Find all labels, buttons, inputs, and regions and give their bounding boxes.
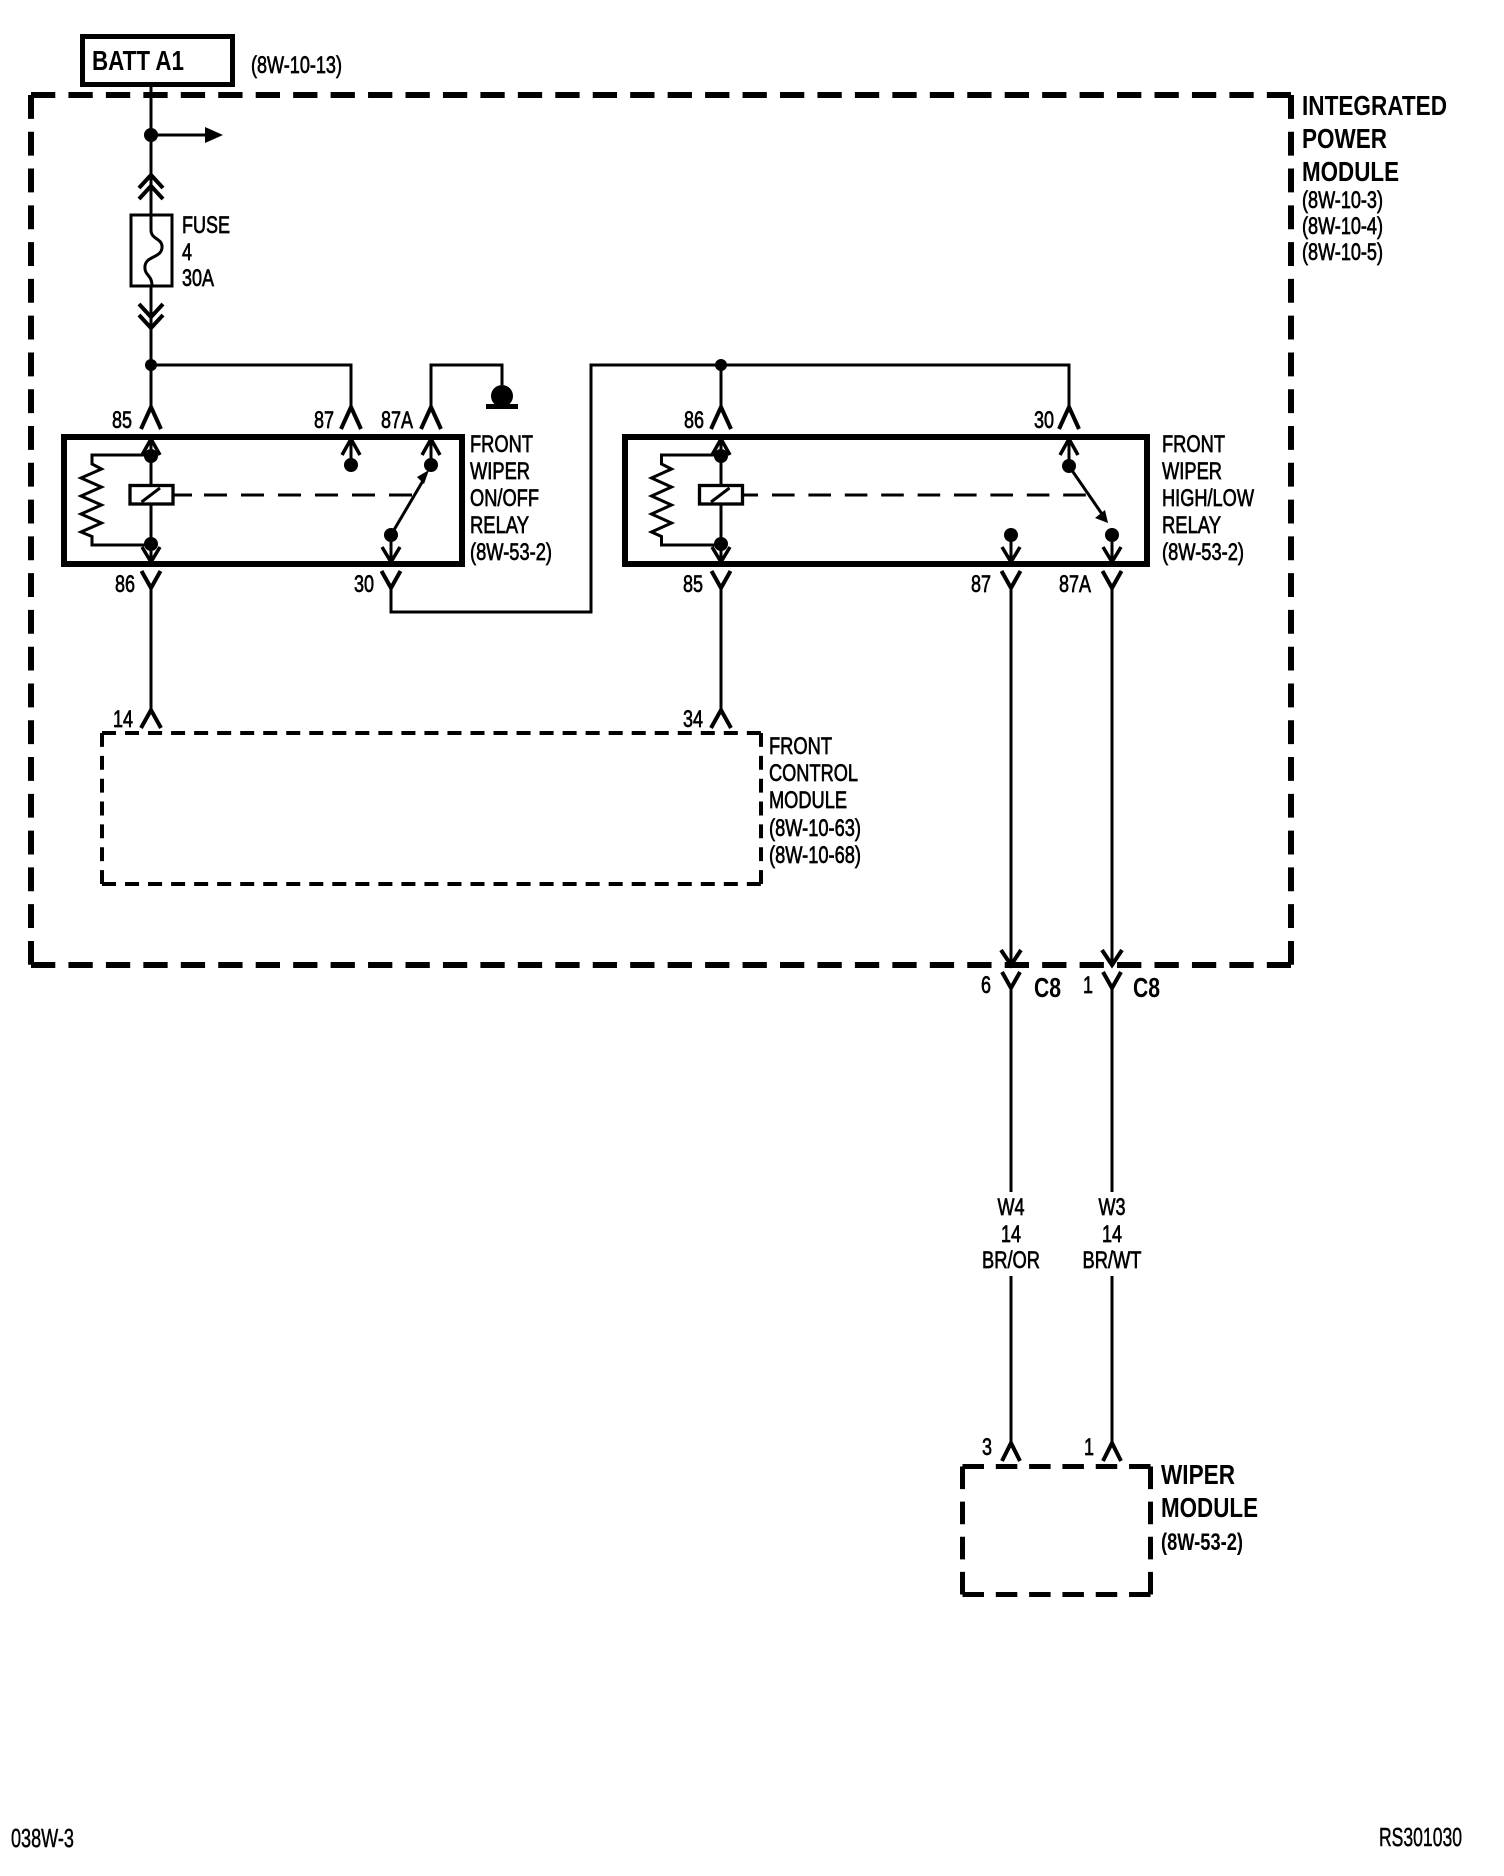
- wiper module box: [963, 1467, 1151, 1595]
- pin 85 male connector relay1: [141, 407, 161, 429]
- pin 87A female connector relay2: [1103, 571, 1122, 588]
- wire junction to relay1 pin 87: [151, 365, 351, 407]
- node relay1 pin 87A contact: [422, 439, 440, 472]
- pin 30 female connector relay1: [382, 571, 401, 588]
- pin 85 entry arrow inside relay1: [142, 439, 160, 456]
- wire junction to relay2 pin 86: [720, 365, 723, 407]
- svg-text:30A: 30A: [182, 265, 214, 292]
- svg-text:(8W-10-68): (8W-10-68): [769, 842, 861, 869]
- svg-text:FRONT: FRONT: [1162, 431, 1225, 458]
- label FUSE 4 30A: [182, 212, 230, 292]
- svg-text:MODULE: MODULE: [1302, 156, 1399, 187]
- pin 86 female connector relay1: [142, 571, 161, 588]
- svg-text:86: 86: [115, 571, 135, 598]
- svg-text:85: 85: [683, 571, 703, 598]
- svg-text:14: 14: [113, 706, 133, 733]
- label INTEGRATED POWER MODULE: [1302, 90, 1447, 266]
- svg-text:14: 14: [1102, 1221, 1122, 1248]
- pin 85 exit arrow inside relay2: [712, 544, 730, 562]
- label FRONT WIPER HIGH/LOW RELAY: [1162, 431, 1254, 566]
- svg-text:34: 34: [683, 706, 703, 733]
- svg-text:MODULE: MODULE: [1161, 1492, 1258, 1523]
- svg-text:1: 1: [1084, 1434, 1094, 1461]
- node junction above relay2 pin 86: [715, 359, 727, 371]
- svg-text:ON/OFF: ON/OFF: [470, 485, 539, 512]
- svg-text:POWER: POWER: [1302, 123, 1387, 154]
- wire W4 upper segment: [1010, 988, 1013, 1192]
- resistor relay1: [81, 455, 152, 545]
- svg-text:FRONT: FRONT: [769, 733, 832, 760]
- svg-text:(8W-53-2): (8W-53-2): [470, 539, 552, 566]
- svg-text:HIGH/LOW: HIGH/LOW: [1162, 485, 1254, 512]
- svg-text:87: 87: [971, 571, 991, 598]
- integrated power module boundary: [31, 95, 1291, 965]
- node relay2 pin 87 contact: [1002, 528, 1020, 562]
- ground symbol: [486, 385, 518, 409]
- node junction at feed arrow: [144, 128, 158, 142]
- wire W3 upper segment: [1111, 988, 1114, 1192]
- svg-text:W4: W4: [998, 1194, 1025, 1221]
- svg-text:INTEGRATED: INTEGRATED: [1302, 90, 1447, 121]
- relay K2 front wiper high/low relay box: [625, 437, 1147, 564]
- svg-text:14: 14: [1001, 1221, 1021, 1248]
- pin 86 entry arrow inside relay2: [712, 439, 730, 456]
- svg-text:30: 30: [1034, 407, 1054, 434]
- node relay1 switch pivot: [384, 528, 398, 542]
- svg-text:WIPER: WIPER: [1161, 1459, 1235, 1490]
- wire fuse to junction: [150, 286, 153, 407]
- svg-text:(8W-10-4): (8W-10-4): [1302, 213, 1383, 240]
- svg-text:(8W-10-5): (8W-10-5): [1302, 239, 1383, 266]
- label wire W3 14 BR/WT: [1083, 1194, 1142, 1274]
- svg-text:RELAY: RELAY: [470, 512, 529, 539]
- svg-text:1: 1: [1083, 972, 1093, 999]
- switch armature relay2: [1071, 469, 1108, 523]
- wire relay1 pin 86 to FCM pin 14: [150, 588, 153, 710]
- pin 30 exit arrow inside relay1: [382, 535, 400, 562]
- pin 87 male connector relay1: [341, 407, 361, 429]
- wire W4 lower segment: [1010, 1276, 1013, 1443]
- pin 87 female connector relay2: [1002, 571, 1021, 588]
- connector C8 pin 6 arrow: [1001, 950, 1021, 965]
- svg-text:C8: C8: [1034, 972, 1061, 1003]
- svg-text:4: 4: [182, 239, 192, 266]
- node relay1 coil top: [144, 449, 158, 463]
- label FRONT CONTROL MODULE: [769, 733, 861, 869]
- svg-text:87A: 87A: [381, 407, 413, 434]
- node relay1 pin 87 contact: [342, 439, 360, 472]
- svg-text:(8W-53-2): (8W-53-2): [1161, 1529, 1243, 1556]
- svg-text:(8W-53-2): (8W-53-2): [1162, 539, 1244, 566]
- svg-text:MODULE: MODULE: [769, 787, 847, 814]
- svg-text:3: 3: [982, 1434, 992, 1461]
- pin 86 male connector relay2: [711, 407, 731, 429]
- label wire W4 14 BR/OR: [982, 1194, 1040, 1274]
- svg-text:CONTROL: CONTROL: [769, 760, 858, 787]
- connector C8 pin 6 socket: [1002, 972, 1020, 988]
- pin 86 exit arrow inside relay1: [142, 544, 160, 562]
- wire BATT A1 to fuse: [150, 87, 153, 215]
- svg-text:RS301030: RS301030: [1379, 1822, 1462, 1852]
- wire relay1 pin 30 to relay2 feed: [391, 365, 1069, 612]
- pin 30 male connector relay2: [1059, 407, 1079, 429]
- svg-text:038W-3: 038W-3: [11, 1823, 74, 1853]
- control dashed line relay2: [772, 494, 1086, 497]
- svg-text:BR/WT: BR/WT: [1083, 1247, 1142, 1274]
- node relay2 coil top: [714, 449, 728, 463]
- switch armature relay1: [391, 470, 429, 535]
- pin 34 male connector FCM: [711, 710, 731, 728]
- node relay2 pin 87A contact: [1103, 528, 1121, 562]
- svg-text:FRONT: FRONT: [470, 431, 533, 458]
- node relay2 coil bottom: [714, 537, 728, 551]
- svg-text:86: 86: [684, 407, 704, 434]
- connector chevrons down: [139, 304, 163, 328]
- control dashed line relay1: [204, 494, 412, 497]
- svg-text:(8W-10-63): (8W-10-63): [769, 815, 861, 842]
- svg-text:85: 85: [112, 407, 132, 434]
- node relay1 coil bottom: [144, 537, 158, 551]
- wire relay2 pin 85 to FCM pin 34: [720, 588, 723, 710]
- relay K1 front wiper on/off relay box: [64, 437, 462, 564]
- label FRONT WIPER ON/OFF RELAY: [470, 431, 552, 566]
- pin 1 male connector wiper module: [1103, 1443, 1121, 1461]
- pin 3 male connector wiper module: [1002, 1443, 1020, 1461]
- wire relay2 pin 87A to C8 pin 1: [1111, 588, 1114, 965]
- svg-text:WIPER: WIPER: [1162, 458, 1222, 485]
- connector C8 pin 1 arrow: [1102, 950, 1122, 965]
- label WIPER MODULE: [1161, 1459, 1258, 1556]
- svg-text:RELAY: RELAY: [1162, 512, 1221, 539]
- wire relay2 pin 87 to C8 pin 6: [1010, 588, 1013, 965]
- wire feed branch arrow: [151, 127, 223, 143]
- svg-text:WIPER: WIPER: [470, 458, 530, 485]
- svg-text:BR/OR: BR/OR: [982, 1247, 1040, 1274]
- connector C8 pin 1 socket: [1103, 972, 1121, 988]
- pin 87A male connector relay1: [421, 407, 441, 429]
- svg-text:(8W-10-13): (8W-10-13): [251, 52, 342, 79]
- pin 85 female connector relay2: [712, 571, 731, 588]
- svg-text:W3: W3: [1099, 1194, 1126, 1221]
- svg-text:87: 87: [314, 407, 334, 434]
- coil relay1: [130, 456, 192, 544]
- svg-text:BATT A1: BATT A1: [92, 45, 184, 76]
- svg-text:30: 30: [354, 571, 374, 598]
- front control module box: [102, 733, 761, 884]
- battery feed box BATT A1: [83, 37, 233, 85]
- fuse F4: [131, 215, 172, 286]
- wire relay1 87A to ground: [431, 365, 502, 407]
- resistor relay2: [652, 455, 722, 545]
- pin 14 male connector FCM: [141, 710, 161, 728]
- coil relay2: [700, 456, 759, 544]
- svg-text:(8W-10-3): (8W-10-3): [1302, 187, 1383, 214]
- svg-text:FUSE: FUSE: [182, 212, 230, 239]
- node relay2 switch pivot: [1060, 439, 1078, 473]
- wire W3 lower segment: [1111, 1276, 1114, 1443]
- connector chevrons up: [139, 175, 163, 199]
- node junction above relay1 pin 85: [145, 359, 157, 371]
- svg-text:87A: 87A: [1059, 571, 1091, 598]
- svg-text:6: 6: [981, 972, 991, 999]
- svg-text:C8: C8: [1133, 972, 1160, 1003]
